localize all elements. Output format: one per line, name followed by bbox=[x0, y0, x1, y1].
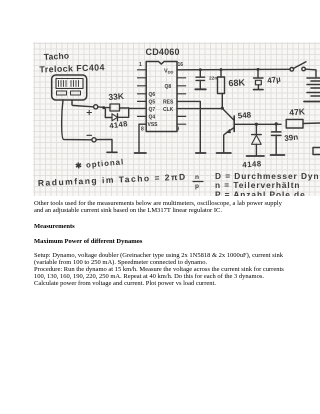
svg-text:VSS: VSS bbox=[148, 122, 159, 128]
svg-text:4148: 4148 bbox=[109, 119, 129, 130]
diode 1N4148 (reset) bbox=[242, 124, 262, 169]
ground (emitter) bbox=[217, 152, 231, 154]
svg-text:✱ optional: ✱ optional bbox=[75, 157, 125, 170]
scanned schematic bbox=[33, 42, 320, 196]
svg-text:Q8: Q8 bbox=[165, 84, 172, 90]
wire to connector (clipped) bbox=[313, 148, 320, 155]
svg-text:39n: 39n bbox=[284, 133, 299, 143]
ground (47u) bbox=[254, 89, 264, 91]
svg-text:47µ: 47µ bbox=[267, 75, 282, 86]
svg-text:n: n bbox=[195, 174, 199, 181]
annotation "* optional" bbox=[75, 157, 125, 170]
resistor 33K bbox=[104, 91, 129, 111]
svg-text:Q4: Q4 bbox=[149, 114, 156, 120]
svg-text:Radumfang im Tacho = 2πD: Radumfang im Tacho = 2πD bbox=[38, 172, 187, 188]
svg-text:68K: 68K bbox=[228, 77, 246, 88]
annotation wheel-circumference formula bbox=[38, 172, 199, 190]
svg-text:47K: 47K bbox=[289, 106, 306, 117]
transistor BC548 bbox=[222, 108, 252, 152]
svg-text:Q5: Q5 bbox=[149, 99, 156, 105]
switch S1 bbox=[290, 62, 316, 77]
svg-text:4148: 4148 bbox=[242, 159, 262, 169]
svg-text:P = Anzahl Pole de: P = Anzahl Pole de bbox=[215, 190, 306, 197]
diode 1N4148 (input) bbox=[104, 108, 129, 131]
ground (reset diode) bbox=[247, 155, 265, 157]
annotation legend D n P bbox=[215, 171, 320, 200]
wire minus to ground bbox=[96, 139, 112, 151]
tacho label "Tacho Trelock FC404" bbox=[39, 51, 105, 75]
ground (IC right) bbox=[196, 152, 206, 154]
wire IC reset node bbox=[177, 108, 222, 110]
svg-text:33K: 33K bbox=[108, 91, 125, 102]
svg-text:Trelock FC404: Trelock FC404 bbox=[39, 62, 105, 74]
svg-text:16: 16 bbox=[178, 62, 184, 68]
ground (22n) bbox=[195, 88, 206, 90]
svg-text:p: p bbox=[195, 183, 199, 190]
IC U1 CD4060 bbox=[138, 47, 186, 132]
resistor 47K bbox=[286, 106, 320, 128]
capacitor 22n bbox=[196, 68, 217, 88]
capacitor 39n bbox=[272, 124, 299, 154]
body text bbox=[34, 200, 314, 214]
svg-text:Q7: Q7 bbox=[149, 107, 156, 113]
speedometer device bbox=[52, 75, 87, 100]
svg-text:VDD: VDD bbox=[164, 69, 174, 75]
wire VDD rail bbox=[177, 68, 290, 71]
battery B1 bbox=[304, 78, 320, 102]
capacitor 47u bbox=[254, 68, 282, 89]
ground (39n) bbox=[271, 154, 285, 156]
svg-text:Tacho: Tacho bbox=[44, 51, 70, 62]
terminal minus bbox=[87, 135, 96, 142]
ground (minus lead) bbox=[107, 151, 117, 153]
svg-text:22n: 22n bbox=[209, 76, 217, 82]
svg-text:9: 9 bbox=[177, 127, 180, 133]
svg-text:8: 8 bbox=[141, 127, 144, 133]
wire IC pin to ground bbox=[177, 101, 200, 152]
wire input network to IC pin bbox=[129, 107, 146, 109]
wire tacho minus lead bbox=[62, 100, 92, 140]
wire tacho plus lead bbox=[72, 100, 93, 107]
svg-text:RES: RES bbox=[163, 99, 174, 105]
wire base node bbox=[234, 123, 281, 125]
wire plus terminal to input network bbox=[98, 106, 104, 109]
svg-text:n = Teilerverhältn: n = Teilerverhältn bbox=[215, 180, 300, 190]
svg-text:1: 1 bbox=[139, 62, 142, 68]
svg-text:Q6: Q6 bbox=[149, 92, 156, 98]
ground (IC pin 8) bbox=[135, 124, 147, 153]
terminal plus bbox=[87, 105, 98, 115]
svg-text:548: 548 bbox=[237, 110, 252, 120]
resistor 68K bbox=[218, 68, 246, 108]
svg-text:CD4060: CD4060 bbox=[146, 47, 180, 57]
svg-text:CLK: CLK bbox=[163, 107, 174, 113]
